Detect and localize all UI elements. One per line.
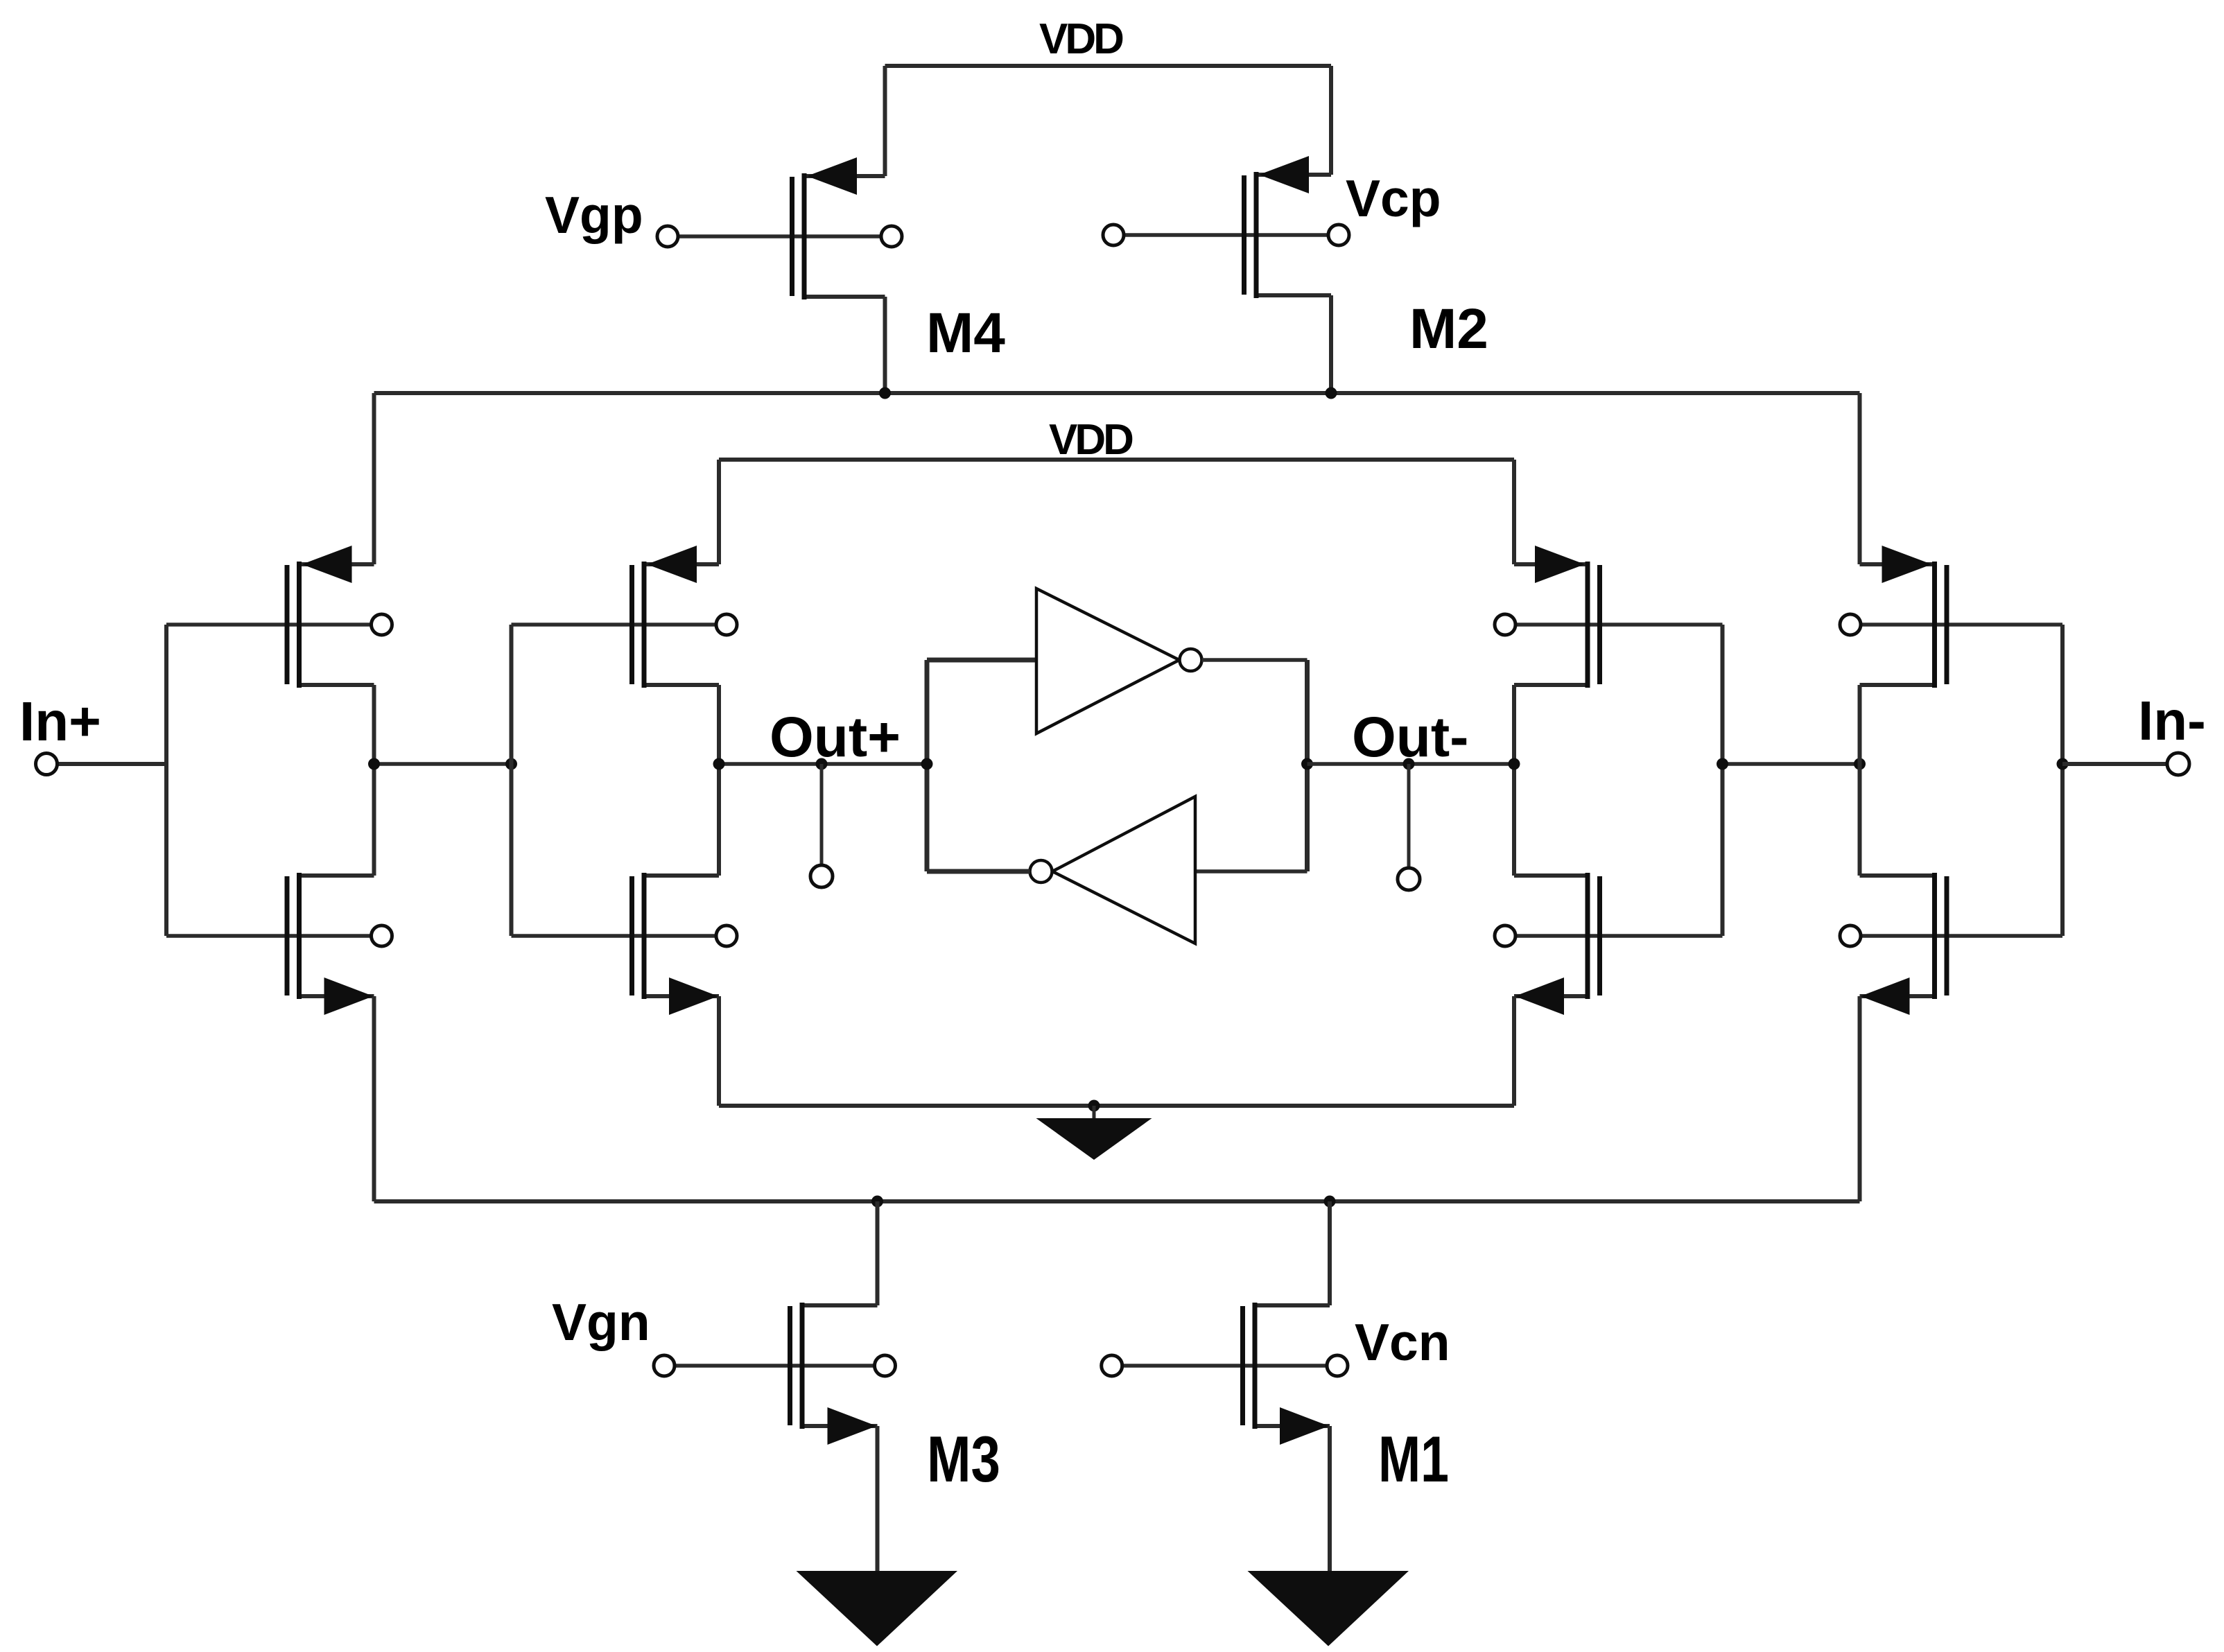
wire: inner source rail [719, 1104, 1514, 1108]
wire: inner-left gate vertical [510, 625, 514, 936]
terminal circle In- [2167, 753, 2189, 775]
junction at inner-right gate vertical [1717, 758, 1728, 770]
inverter U2 (reverse) [1052, 797, 1195, 944]
transistor inner-left PMOS [512, 460, 738, 764]
wire: U2 output to latch left vertical [927, 869, 1030, 874]
terminal circle Out- [1398, 868, 1420, 890]
wire: VDD rail left drop to M4 source [883, 66, 887, 176]
junction inner-left drain node [713, 758, 725, 770]
transistor M4 (PMOS) [678, 157, 902, 393]
transistor inner-left NMOS [512, 764, 738, 1106]
wire: latch left vertical [925, 660, 930, 871]
junction at In- gate vertical [2057, 758, 2069, 770]
wire: latch top input line [927, 658, 1036, 663]
ground under M1 [1248, 1571, 1409, 1646]
transistor M1 (NMOS) [1122, 1201, 1348, 1571]
inverter U1 output bubble [1180, 649, 1202, 671]
wire: inner-right gate to outer-right drain [1723, 762, 1860, 766]
wire: Out- stub [1407, 764, 1411, 868]
wire: bus left end drop to outer-left PMOS [372, 393, 376, 564]
junction at M1 drain / bus [1324, 1196, 1336, 1208]
wire: In- gate vertical [2060, 625, 2065, 936]
wire: inner-left drain to latch [719, 762, 927, 766]
transistor inner-right NMOS [1495, 764, 1723, 1106]
svg-text:VDD: VDD [1049, 416, 1133, 464]
svg-text:Out-: Out- [1352, 706, 1468, 769]
junction outer-right drain node [1854, 758, 1866, 770]
junction Out- stub [1403, 758, 1415, 770]
wire: ground stub [1093, 1106, 1096, 1120]
wire: outer-left drain to inner-left gate [374, 762, 512, 766]
junction Out+ stub [816, 758, 828, 770]
transistor outer-left PMOS [166, 546, 392, 764]
svg-text:VDD: VDD [1039, 15, 1123, 63]
svg-text:Vcn: Vcn [1355, 1313, 1450, 1371]
terminal circle Vgp [657, 226, 678, 247]
wire: inner VDD rail [719, 458, 1514, 462]
junction at M2 drain / bus [1326, 388, 1337, 399]
svg-text:M2: M2 [1409, 297, 1488, 360]
wire: In- lead [2062, 762, 2167, 766]
ground (tail, middle) [1036, 1118, 1152, 1160]
junction latch right / Out- [1301, 758, 1313, 770]
wire: In+ lead [58, 762, 167, 766]
svg-text:Vgp: Vgp [545, 186, 643, 244]
wire: bus right end drop to outer-right PMOS [1858, 393, 1862, 564]
terminal circle at M1 gate (left) [1102, 1355, 1122, 1376]
wire: VDD rail right drop to M2 source [1329, 66, 1333, 175]
transistor inner-right PMOS [1495, 460, 1723, 764]
transistor M2 (PMOS) [1124, 156, 1349, 393]
junction at M3 drain / bus [871, 1196, 883, 1208]
svg-text:Out+: Out+ [770, 706, 901, 769]
transistor outer-right PMOS [1840, 546, 2062, 764]
svg-text:In-: In- [2138, 690, 2206, 751]
wire: upper horizontal bus [374, 391, 1860, 395]
inverter U1 (forward) [1036, 589, 1179, 733]
wire: In+ gate vertical [164, 625, 168, 936]
junction at M4 drain / bus [879, 388, 891, 399]
transistor M3 (NMOS) [675, 1201, 896, 1571]
wire: inner-right gate vertical [1721, 625, 1725, 936]
inverter U2 output bubble [1030, 860, 1052, 882]
transistor outer-left NMOS [166, 764, 392, 1201]
terminal circle Out+ [810, 865, 833, 887]
ground under M3 [797, 1571, 958, 1646]
wire: latch bottom input line [1195, 869, 1308, 873]
wire: Out+ stub [820, 764, 824, 865]
junction inner-right drain node [1509, 758, 1520, 770]
junction outer-left drain node [368, 758, 380, 770]
svg-text:M4: M4 [926, 302, 1005, 365]
svg-text:M3: M3 [927, 1423, 1000, 1495]
svg-text:In+: In+ [19, 690, 101, 752]
wire: lower horizontal bus [374, 1199, 1860, 1203]
svg-text:Vgn: Vgn [552, 1293, 650, 1351]
svg-text:M1: M1 [1378, 1423, 1449, 1495]
wire: latch right vertical [1305, 660, 1310, 871]
junction at inner-left gate vertical [505, 758, 517, 770]
wire: top VDD rail [885, 64, 1332, 68]
wire: latch to inner-right drain [1308, 762, 1515, 766]
wire: U1 output to latch right vertical [1202, 658, 1308, 662]
terminal circle at M2 gate (left) [1103, 225, 1124, 245]
terminal circle Vgn [654, 1355, 675, 1376]
svg-text:Vcp: Vcp [1346, 169, 1441, 227]
junction at ground stub [1088, 1100, 1100, 1112]
transistor outer-right NMOS [1840, 764, 2062, 1201]
terminal circle In+ [36, 754, 58, 775]
junction latch left / Out+ [921, 758, 933, 770]
